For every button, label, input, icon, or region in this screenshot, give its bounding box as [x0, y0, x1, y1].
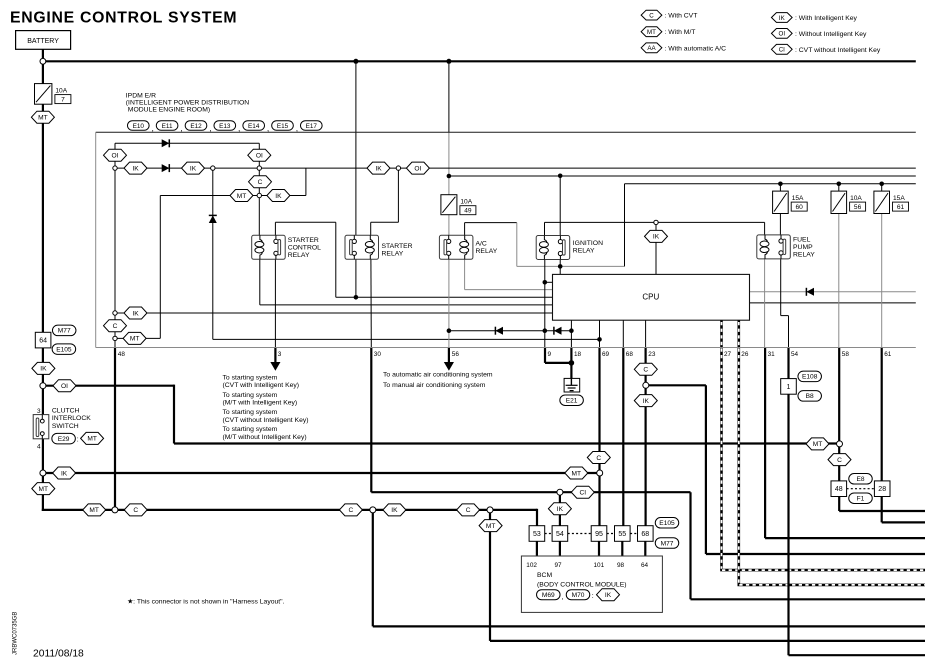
- wire CPU stub y282.3: [545, 281, 553, 283]
- option marker MT below junction: [479, 520, 502, 532]
- svg-text:23: 23: [648, 351, 656, 358]
- BCM connector boxes 53 54 95 55 68: [529, 526, 653, 542]
- svg-text:1: 1: [787, 384, 791, 391]
- wire diode chain row y339.4: [213, 338, 600, 340]
- svg-text:IGNITION: IGNITION: [573, 240, 603, 247]
- junction dot fuse60 feed: [778, 182, 783, 187]
- svg-text:INTERLOCK: INTERLOCK: [52, 415, 91, 422]
- option marker C x115 y325.7: [104, 320, 127, 332]
- fuel pump relay: [757, 235, 791, 259]
- svg-text:IK: IK: [132, 165, 139, 172]
- svg-text:(M/T without Intelligent Key): (M/T without Intelligent Key): [223, 434, 307, 441]
- wire BCM pin 95 into BCM: [598, 541, 600, 556]
- svg-text:(INTELLIGENT POWER DISTRIBUTIO: (INTELLIGENT POWER DISTRIBUTION: [126, 99, 249, 106]
- svg-text:C: C: [643, 367, 648, 374]
- wire ignition output row y266.4: [517, 265, 625, 267]
- svg-text:JRBWC0735GB: JRBWC0735GB: [13, 612, 19, 655]
- svg-text:CI: CI: [779, 47, 785, 54]
- diode CPU right row: [806, 288, 814, 296]
- ignition relay: [536, 236, 570, 260]
- svg-text:: With automatic A/C: : With automatic A/C: [665, 45, 727, 52]
- svg-text:95: 95: [595, 531, 603, 538]
- junction circle x656 y222.4: [654, 220, 658, 224]
- legend marker IK : With Intelligent Key: [771, 13, 857, 23]
- svg-text:,: ,: [209, 123, 211, 133]
- svg-text:: With M/T: : With M/T: [665, 29, 696, 36]
- junction dot fuse56 feed: [837, 182, 842, 187]
- svg-text:: With CVT: : With CVT: [665, 13, 698, 20]
- svg-text:: CVT without Intelligent Key: : CVT without Intelligent Key: [795, 47, 881, 54]
- connector oval B8: [798, 391, 822, 402]
- connector oval M77: [52, 325, 75, 336]
- svg-text:RELAY: RELAY: [793, 251, 815, 258]
- svg-text:C: C: [649, 12, 654, 19]
- svg-text:68: 68: [641, 531, 649, 538]
- svg-text:: Without Intelligent Key: : Without Intelligent Key: [795, 31, 867, 38]
- wire fuse56 output: [838, 184, 840, 191]
- texts to starting system: [223, 374, 309, 441]
- wire CI corner down x690.5: [689, 492, 691, 599]
- svg-text:61: 61: [897, 204, 905, 211]
- svg-text:OI: OI: [256, 153, 263, 160]
- svg-text:(BODY CONTROL MODULE): (BODY CONTROL MODULE): [537, 581, 627, 588]
- svg-text:To manual air conditioning sys: To manual air conditioning system: [383, 382, 486, 389]
- svg-text:98: 98: [617, 562, 625, 569]
- dotted links between BCM boxes: [545, 533, 552, 535]
- wire ignition relay coil top row y222.4: [544, 222, 546, 235]
- junction circle x259.3 y168: [257, 166, 261, 170]
- svg-text:IK: IK: [132, 310, 139, 317]
- svg-text:MT: MT: [647, 29, 656, 36]
- svg-text:MT: MT: [87, 436, 97, 443]
- svg-text:SWITCH: SWITCH: [52, 423, 79, 430]
- option marker MT y443.5: [806, 438, 829, 450]
- svg-text:3: 3: [278, 351, 282, 358]
- option marker IK y473: [53, 467, 76, 479]
- wire OI diode row y143.3: [115, 142, 259, 144]
- wire CI row y492.2: [371, 491, 690, 493]
- svg-text:55: 55: [618, 531, 626, 538]
- wire pin23 below module to BCM 68: [644, 348, 646, 527]
- svg-text:,: ,: [152, 123, 154, 133]
- option marker MT x134.6 y338.4: [123, 332, 146, 344]
- wire corner down to BCM pin 53: [536, 509, 538, 526]
- option marker IK above CPU: [645, 230, 668, 242]
- legend marker AA : With automatic A/C: [641, 43, 726, 53]
- svg-text:69: 69: [602, 351, 610, 358]
- wire pin56 stub to A/C systems: [448, 348, 450, 364]
- option marker C y510 left: [124, 504, 147, 516]
- svg-text:E15: E15: [277, 123, 289, 130]
- junction circle x114.9 y510: [112, 507, 118, 513]
- svg-text:IK: IK: [40, 366, 47, 373]
- wire A/C relay coil bottom to CPU: [464, 259, 466, 290]
- svg-text:To starting system: To starting system: [223, 426, 278, 433]
- svg-text:A/C: A/C: [476, 241, 487, 248]
- option marker C y510 right: [457, 504, 480, 516]
- svg-text:ENGINE CONTROL SYSTEM: ENGINE CONTROL SYSTEM: [10, 10, 237, 27]
- svg-text:E108: E108: [802, 374, 818, 381]
- svg-text:RELAY: RELAY: [288, 252, 310, 259]
- svg-text:To starting system: To starting system: [223, 374, 278, 381]
- connector oval E21: [560, 395, 584, 406]
- junction dots diode row: [447, 328, 452, 333]
- svg-text:28: 28: [878, 486, 886, 493]
- option marker OI near starter relay: [406, 162, 429, 174]
- svg-text:MT: MT: [572, 470, 582, 477]
- fuse 61 15A: [874, 191, 890, 213]
- svg-text:AA: AA: [647, 45, 656, 52]
- wire bus drop to starter relay contact: [355, 61, 357, 240]
- wire pin9 below module: [544, 348, 546, 363]
- svg-text:30: 30: [374, 351, 382, 358]
- wire fuse61 output: [881, 184, 883, 191]
- option marker IK row195: [267, 190, 290, 202]
- svg-text:C: C: [596, 455, 601, 462]
- svg-text:60: 60: [796, 204, 804, 211]
- junction dot bus x355.9: [353, 59, 358, 64]
- junction circle x259.3 y195.5: [257, 193, 261, 197]
- wire pin26 dashed to right edge y584.9: [738, 584, 925, 587]
- wire fuse49 output row y176: [449, 175, 916, 177]
- wire pin48 below module: [114, 348, 116, 510]
- svg-text:,: ,: [562, 594, 564, 601]
- wire CI to right edge y599.3: [691, 598, 925, 600]
- legend marker OI : Without Intelligent Key: [771, 29, 867, 39]
- wire ignition relay coil bottom to pin9: [544, 259, 546, 347]
- legend marker CI : CVT without Intelligent Key: [771, 44, 880, 54]
- wire IK row y473 from clutch junction: [43, 472, 600, 474]
- wire CPU pin18 inside: [570, 320, 572, 347]
- wire OI branch horizontal y385.7: [43, 385, 174, 387]
- option marker MT y510: [83, 504, 106, 516]
- svg-text:To starting system: To starting system: [223, 409, 278, 416]
- wire CPU right output y302.9: [750, 302, 916, 304]
- svg-text:IK: IK: [375, 165, 382, 172]
- BCM pin numbers: [526, 562, 648, 569]
- wire IK riser x305.9: [305, 168, 307, 195]
- svg-text:OI: OI: [414, 165, 421, 172]
- svg-text:★: This connector is not shown: ★: This connector is not shown in "Harne…: [127, 598, 284, 606]
- svg-text:E8: E8: [856, 476, 864, 483]
- svg-text:(CVT with Intelligent Key): (CVT with Intelligent Key): [223, 382, 300, 389]
- svg-text:,: ,: [296, 123, 298, 133]
- svg-text:49: 49: [464, 208, 472, 215]
- svg-text:B8: B8: [806, 393, 814, 400]
- svg-text:IK: IK: [61, 470, 68, 477]
- option marker OI right: [248, 149, 271, 161]
- option marker MT battery fuse: [31, 111, 54, 123]
- wire riser x624.5 to fuse row: [624, 184, 626, 267]
- option marker OI left: [104, 149, 127, 161]
- option marker IK x135 y313: [124, 307, 147, 319]
- svg-text:IPDM E/R: IPDM E/R: [126, 92, 156, 99]
- svg-text:M70: M70: [572, 592, 585, 599]
- junction circle pin23 branch: [643, 382, 649, 388]
- option marker IK above BCM54: [548, 503, 571, 515]
- svg-text:(M/T with Intelligent Key): (M/T with Intelligent Key): [223, 400, 298, 407]
- wire starter relay output row to CPU y297.3: [336, 296, 553, 298]
- svg-text:E11: E11: [162, 123, 173, 130]
- svg-text:F1: F1: [857, 496, 865, 503]
- wire long MT row y443.5: [174, 442, 840, 444]
- connector oval E105 right: [655, 518, 679, 529]
- svg-text:RELAY: RELAY: [382, 251, 404, 258]
- svg-text:MT: MT: [813, 441, 823, 448]
- svg-text:BCM: BCM: [537, 572, 552, 579]
- svg-text:IK: IK: [190, 165, 197, 172]
- svg-text:54: 54: [556, 531, 564, 538]
- svg-text:101: 101: [594, 562, 605, 569]
- wire CI circle to BCM 54: [559, 492, 561, 526]
- svg-text:IK: IK: [275, 193, 282, 200]
- wire MT chain vertical x160.3: [159, 196, 161, 339]
- connector oval M77 right: [655, 538, 679, 549]
- junction circle pin69 y473: [597, 470, 603, 476]
- junction circle x490 y510: [487, 507, 493, 513]
- BCM connector ovals M69 M70 IK: [537, 589, 620, 601]
- wire pin30 below module: [370, 348, 372, 493]
- wire branch vertical x705.9: [705, 385, 707, 554]
- diode pair right: [554, 327, 562, 335]
- diode vertical x212.8: [209, 215, 217, 223]
- svg-text:48: 48: [835, 486, 843, 493]
- svg-text:E14: E14: [248, 123, 260, 130]
- wire BCM pin 68 into BCM: [644, 541, 646, 556]
- wire pin58 to right edge y511: [839, 510, 925, 512]
- svg-text:26: 26: [741, 351, 749, 358]
- wire IK marker drop to CPU x656: [655, 222, 657, 274]
- junction circle x372.8 y510: [370, 507, 376, 513]
- svg-text:RELAY: RELAY: [476, 248, 498, 255]
- wire CPU pin23 inside: [645, 320, 647, 347]
- wire starter control coil down then CPU row y304.9: [259, 259, 261, 305]
- wire fuse60 stubs: [779, 184, 781, 191]
- wire CPU pin69 inside: [599, 320, 601, 347]
- wire BCM pin 53 into BCM: [536, 541, 538, 556]
- connector M77/E105 pin 64 box: [35, 332, 51, 348]
- svg-text:E17: E17: [306, 123, 318, 130]
- wire battery bus horizontal: [43, 60, 916, 62]
- option marker IK: [124, 162, 147, 174]
- fuse 49 10A: [441, 195, 457, 215]
- svg-text:E105: E105: [659, 520, 675, 527]
- svg-text:CI: CI: [580, 490, 587, 497]
- svg-text:68: 68: [626, 351, 634, 358]
- svg-text:IK: IK: [643, 398, 650, 405]
- connector oval E29 with MT: [52, 432, 104, 444]
- fuse 60 15A: [773, 191, 789, 213]
- option marker IK pin23: [634, 395, 657, 407]
- wire pin68 below module to BCM 55: [622, 348, 624, 527]
- svg-text:To starting system: To starting system: [223, 392, 278, 399]
- svg-text:27: 27: [724, 351, 732, 358]
- wire starter control contact top loop: [274, 222, 276, 235]
- svg-text:2011/08/18: 2011/08/18: [33, 649, 84, 660]
- svg-text:OI: OI: [112, 153, 119, 160]
- svg-text:102: 102: [526, 562, 537, 569]
- arrow to starting system: [271, 363, 279, 370]
- wire fuel pump coil drop x764.6: [764, 222, 766, 235]
- wire pin3 stub to starting systems: [274, 348, 276, 364]
- connector box 1: [781, 379, 797, 395]
- svg-text:E13: E13: [219, 123, 231, 130]
- option marker C y510 mid: [339, 504, 362, 516]
- svg-text:MT: MT: [130, 336, 140, 343]
- wire MT row y195.5: [160, 195, 306, 197]
- junction circle OI branch: [40, 383, 46, 389]
- svg-text:C: C: [349, 507, 354, 514]
- junction circle x398.4 y168: [396, 166, 400, 170]
- wire pin27 dashed vertical: [720, 320, 723, 570]
- wire battery feed vertical: [42, 49, 44, 332]
- svg-text:BATTERY: BATTERY: [27, 38, 59, 45]
- wire pin61 below module: [881, 348, 883, 523]
- wire pin9 to pin18 join: [545, 362, 571, 364]
- wire fuse feed row y183.8: [625, 183, 916, 185]
- arrow to air conditioning system: [445, 363, 453, 370]
- wire OI branch vertical x174: [173, 385, 175, 444]
- wire pin31 below module: [764, 348, 766, 539]
- wire pin54 to right edge y655.2: [789, 654, 925, 656]
- diode IK row: [162, 164, 170, 172]
- junction dot ground join: [569, 360, 575, 366]
- svg-text:(CVT without Intelligent Key): (CVT without Intelligent Key): [223, 417, 309, 424]
- svg-text:10A: 10A: [460, 199, 472, 206]
- svg-text:IK: IK: [557, 506, 564, 513]
- BCM module box: [521, 556, 662, 612]
- wire clutch switch to MT/C corner: [42, 439, 44, 511]
- wire IK long row y168.1: [115, 167, 916, 169]
- svg-text:M69: M69: [542, 592, 555, 599]
- wire branch to right edge y554: [706, 553, 925, 555]
- starter control relay: [252, 235, 286, 259]
- svg-text:FUEL: FUEL: [793, 236, 811, 243]
- wire diode chain vertical x212.8: [212, 168, 214, 339]
- svg-text:,: ,: [267, 123, 269, 133]
- option marker MT row195: [230, 190, 253, 202]
- junction dot coil stub y282.3: [543, 280, 548, 285]
- svg-text:IK: IK: [391, 507, 398, 514]
- wire starter control contact bottom to pin3: [274, 259, 276, 347]
- svg-text:C: C: [133, 507, 138, 514]
- option marker IK y510: [383, 504, 406, 516]
- svg-text:PUMP: PUMP: [793, 244, 813, 251]
- svg-text:61: 61: [884, 351, 892, 358]
- legend marker MT : With M/T: [641, 27, 695, 37]
- junction circle clutch IK row: [40, 470, 46, 476]
- wire A/C relay coil feed y222.6: [464, 223, 466, 236]
- svg-text:MT: MT: [486, 523, 496, 530]
- svg-text:IK: IK: [653, 234, 660, 241]
- junction battery-bus: [40, 58, 46, 64]
- junction dot starter output y297.3: [354, 295, 359, 300]
- wire pin26 dashed vertical: [737, 320, 740, 585]
- option marker C: [249, 176, 272, 188]
- option marker C pin58: [828, 454, 851, 466]
- svg-text:IK: IK: [779, 15, 786, 22]
- wire bus drop to fuse 49 and A/C relay: [448, 61, 450, 132]
- wire CPU pin68 inside: [622, 320, 624, 347]
- svg-text:E12: E12: [190, 123, 202, 130]
- wire fuel pump contact bottom jog to pin54: [780, 253, 782, 315]
- svg-text:4: 4: [37, 444, 41, 451]
- junction circle x115 y338.4: [113, 336, 117, 340]
- connector oval F1: [849, 493, 873, 504]
- wire pin61 to right edge y522.4: [882, 521, 925, 523]
- option marker MT y473 right: [565, 467, 588, 479]
- wire fuel pump coil bottom to pin31: [764, 259, 766, 348]
- svg-text:MT: MT: [237, 193, 247, 200]
- svg-text:M77: M77: [58, 328, 71, 335]
- junction dot fuse49 row: [447, 174, 452, 179]
- wire junction y510 down x490: [489, 510, 491, 641]
- option marker C pin69: [587, 452, 610, 464]
- svg-text:54: 54: [791, 351, 799, 358]
- wire ignition relay contact top x560.2: [559, 176, 561, 242]
- svg-text:MT: MT: [89, 507, 99, 514]
- svg-text:C: C: [113, 323, 118, 330]
- wire CPU right output y291.8: [750, 291, 916, 293]
- junction dot y266.4: [558, 264, 563, 269]
- svg-text:IK: IK: [605, 592, 612, 599]
- wire left chain vertical x115: [114, 143, 116, 347]
- svg-text:7: 7: [61, 97, 65, 104]
- svg-text:64: 64: [641, 562, 649, 569]
- junction circle x115 y313: [113, 311, 117, 315]
- IPDM connector ovals E10-E17: [128, 121, 323, 133]
- wire ignition feed path x516.8: [516, 223, 518, 267]
- junction circle x212.8 y168: [211, 166, 215, 170]
- option marker CI: [571, 486, 594, 498]
- svg-text:48: 48: [118, 351, 126, 358]
- svg-text:M77: M77: [661, 540, 674, 547]
- svg-text:,: ,: [180, 123, 182, 133]
- svg-text:C: C: [466, 507, 471, 514]
- clutch interlock switch: [33, 415, 49, 439]
- option marker MT x43 y488.6: [32, 483, 55, 495]
- svg-text:56: 56: [452, 351, 460, 358]
- option marker C pin23: [634, 363, 657, 375]
- wire diode pair row y330.7: [449, 330, 572, 332]
- A/C relay: [439, 235, 473, 259]
- diode pair left: [495, 327, 503, 335]
- wire junction y510 down x372.8: [372, 510, 374, 627]
- connector oval E105: [52, 344, 76, 355]
- svg-text:31: 31: [768, 351, 776, 358]
- CPU box: [553, 274, 750, 320]
- svg-text::: :: [77, 437, 79, 444]
- svg-text:18: 18: [574, 351, 582, 358]
- junction dot y339.4 pin69: [597, 337, 602, 342]
- svg-text:RELAY: RELAY: [573, 248, 595, 255]
- wire IK row to CPU y313: [115, 312, 553, 314]
- svg-text:10A: 10A: [55, 88, 67, 95]
- junction dot bus x448.9: [446, 59, 451, 64]
- svg-text:9: 9: [548, 351, 552, 358]
- connector oval E108: [798, 371, 822, 382]
- wire to right edge y640.9: [490, 640, 925, 642]
- junction circle pin58 y443.9: [837, 441, 843, 447]
- junction circle CI row: [557, 489, 563, 495]
- option marker IK near starter relay: [367, 162, 390, 174]
- svg-text:OI: OI: [779, 31, 786, 38]
- wire pin58 below module: [838, 348, 840, 512]
- svg-text:53: 53: [533, 531, 541, 538]
- option marker OI branch: [53, 380, 76, 392]
- texts to air conditioning systems: [383, 372, 493, 390]
- wire pin18 below module to ground: [570, 348, 572, 379]
